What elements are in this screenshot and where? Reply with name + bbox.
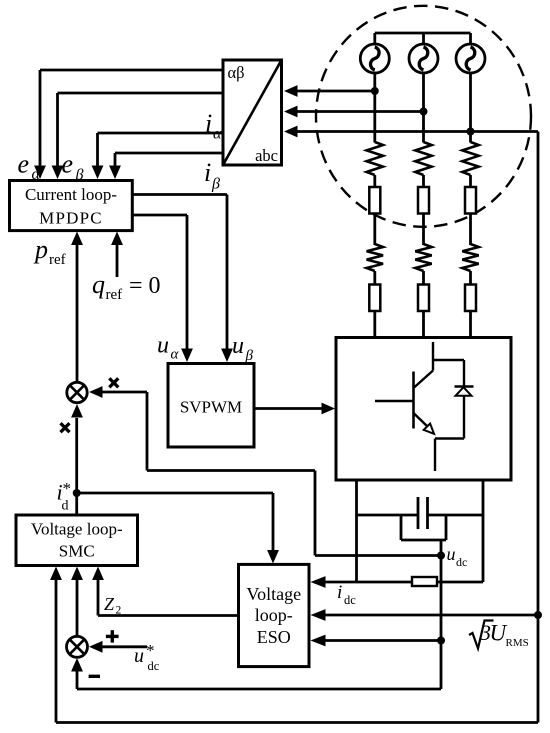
- svg-text:u: u: [232, 333, 244, 359]
- wire e_beta from transform to MPDPC: [58, 92, 224, 95]
- wire u_dc measured to comparator minus: [71, 658, 441, 689]
- label multiply sign (lower): [61, 423, 70, 432]
- svg-text:dc: dc: [148, 659, 160, 673]
- wire right rail: [537, 132, 540, 723]
- resistor Rb1: [415, 142, 431, 175]
- svg-text:abc: abc: [255, 146, 278, 165]
- block SVPWM: [168, 364, 254, 448]
- resistor Rc2: [462, 244, 478, 271]
- svg-text:α: α: [171, 347, 180, 363]
- svg-text:SVPWM: SVPWM: [180, 398, 242, 417]
- svg-text:MPDPC: MPDPC: [39, 209, 103, 228]
- wire source stub 1: [373, 33, 376, 45]
- wire u_dc feedback to multiplier: [89, 386, 441, 555]
- label q_ref = 0: [92, 270, 161, 303]
- node phase b tap: [420, 108, 428, 116]
- wire source stub 3: [469, 33, 472, 45]
- wire: [422, 214, 425, 246]
- label u_dc: [447, 544, 468, 569]
- grid boundary (dashed circle): [316, 6, 531, 227]
- IGBT Q1: [375, 342, 464, 471]
- resistor Rc1: [462, 142, 478, 175]
- svg-text:Voltage loop-: Voltage loop-: [31, 520, 123, 539]
- summing node (u_dc comparator): [67, 636, 88, 657]
- wire: [469, 175, 472, 188]
- wire bottom rail riser to SMC: [55, 578, 58, 723]
- wire MPDPC to SVPWM (u_beta): [132, 193, 227, 196]
- svg-text:β: β: [211, 176, 220, 193]
- svg-text:2: 2: [116, 605, 122, 617]
- wire phase c into converter: [469, 311, 472, 338]
- label u_beta: [232, 333, 254, 364]
- svg-text:*: *: [63, 479, 72, 498]
- wire DC bus right: [428, 514, 484, 517]
- wire: [373, 175, 376, 188]
- svg-text:Z: Z: [104, 594, 115, 614]
- svg-text:loop-: loop-: [255, 605, 293, 625]
- svg-text:SMC: SMC: [59, 542, 95, 561]
- wire Z2 from ESO to SMC: [92, 567, 238, 616]
- wire phase b into converter: [422, 311, 425, 338]
- block Voltage loop-SMC: [16, 515, 138, 566]
- wire comparator output to SMC: [76, 578, 79, 636]
- wire: [469, 214, 472, 246]
- label u_alpha: [157, 333, 180, 363]
- wire u_dc to ESO input: [320, 639, 441, 642]
- block Current loop-MPDPC: [10, 181, 133, 231]
- svg-text:αβ: αβ: [228, 63, 245, 82]
- multiplier node: [67, 382, 87, 402]
- wire u_dc* reference input: [102, 645, 147, 648]
- inductor La1: [369, 187, 380, 214]
- svg-text:ESO: ESO: [257, 627, 291, 647]
- label plus sign: [106, 630, 119, 642]
- svg-text:RMS: RMS: [506, 637, 529, 649]
- svg-text:ref: ref: [106, 287, 123, 303]
- svg-text:q: q: [92, 270, 105, 299]
- svg-text:e: e: [18, 150, 30, 179]
- svg-text:dc: dc: [344, 593, 356, 607]
- wire bottom rail: [56, 721, 538, 724]
- label e_alpha: [18, 150, 41, 184]
- wire MPDPC to SVPWM (u_alpha): [132, 214, 187, 217]
- AC source Vc: [456, 44, 485, 73]
- svg-text:ref: ref: [49, 252, 66, 268]
- node right rail to ESO: [534, 611, 542, 619]
- wire e_c tap to abc block: [296, 130, 471, 133]
- wire: [422, 271, 425, 286]
- label i_dc: [337, 582, 356, 607]
- AC source Va: [360, 44, 389, 73]
- label u_dc* reference: [134, 641, 160, 673]
- resistor Ra1: [367, 142, 383, 175]
- resistor Ra2: [367, 244, 383, 271]
- inductor La2: [369, 285, 380, 312]
- label e_beta: [62, 150, 84, 184]
- svg-text:i: i: [337, 582, 342, 603]
- wire i_beta from transform to MPDPC: [115, 152, 223, 155]
- label i_alpha: [205, 109, 222, 143]
- svg-text:e: e: [62, 150, 74, 179]
- wire e_alpha from transform to MPDPC: [40, 69, 223, 72]
- label i_beta: [204, 158, 220, 193]
- label Z_2: [104, 594, 122, 617]
- wire: [469, 271, 472, 286]
- svg-text:u: u: [157, 333, 169, 359]
- node phase a tap: [371, 87, 379, 95]
- node u_dc to ESO tap: [437, 637, 445, 645]
- wire converter DC- down: [482, 480, 485, 582]
- converter block (IGBT bridge): [336, 338, 511, 481]
- voltage sense bracket across capacitor: [401, 516, 446, 540]
- wire phase c source to impedance: [469, 73, 472, 143]
- wire u_dc vertical down: [440, 556, 443, 690]
- svg-text:i: i: [204, 158, 211, 187]
- resistor Rb2: [415, 244, 431, 271]
- label p_ref: [33, 235, 66, 268]
- node i_d*: [73, 489, 81, 497]
- inductor Lb1: [418, 187, 429, 214]
- AC source Vb: [409, 44, 438, 73]
- wire e_b tap to abc block: [296, 110, 424, 113]
- wire converter DC+ down: [355, 480, 358, 582]
- wire phase c tap to right rail: [471, 130, 539, 133]
- wire i_alpha from transform to MPDPC: [98, 132, 224, 135]
- svg-text:Current loop-: Current loop-: [25, 185, 117, 204]
- wire q_ref input to MPDPC: [116, 245, 119, 277]
- wire DC bus left: [357, 514, 419, 517]
- svg-text:p: p: [33, 235, 48, 264]
- inductor Lc2: [465, 285, 476, 312]
- abc to alpha-beta transform block U1: [223, 60, 282, 165]
- label minus sign: [89, 675, 100, 678]
- wire i_d* to ESO: [77, 493, 279, 564]
- diode D1 (freewheeling): [455, 360, 474, 439]
- wire sqrt3 U_RMS from right rail to ESO: [321, 614, 538, 617]
- wire phase a into converter: [373, 311, 376, 338]
- wire SVPWM to converter: [254, 407, 323, 410]
- svg-text:*: *: [146, 641, 155, 660]
- svg-text:i: i: [205, 109, 212, 138]
- svg-text:d: d: [62, 499, 69, 514]
- block Voltage loop-ESO: [239, 564, 310, 666]
- svg-text:α: α: [213, 126, 222, 143]
- node phase c tap: [467, 128, 475, 136]
- svg-text:u: u: [447, 544, 456, 564]
- inductor Lc1: [465, 187, 476, 214]
- label i_d*: [57, 479, 72, 514]
- node u_dc: [437, 552, 445, 560]
- wire phase b source to impedance: [422, 73, 425, 143]
- wire: [373, 214, 376, 246]
- label sqrt3 U_RMS: [469, 620, 529, 649]
- wire multiplier output p_ref to MPDPC: [76, 245, 79, 382]
- inductor Lb2: [418, 285, 429, 312]
- svg-text:β: β: [245, 348, 254, 364]
- label multiply sign (right): [109, 378, 118, 387]
- wire bracket to u_dc node: [440, 540, 443, 556]
- svg-text:Voltage: Voltage: [246, 584, 301, 604]
- svg-text:= 0: = 0: [129, 273, 161, 299]
- svg-text:u: u: [134, 645, 144, 667]
- wire SMC output i_d* to multiplier: [75, 418, 78, 515]
- wire top bus: [375, 32, 471, 35]
- capacitor C (DC link): [418, 497, 428, 529]
- wire e_a tap to abc block: [296, 90, 375, 93]
- svg-text:dc: dc: [456, 555, 467, 569]
- wire: [422, 175, 425, 188]
- wire source stub 2: [422, 33, 425, 45]
- wire: [373, 271, 376, 286]
- shunt resistor (i_dc sense) and wire to ESO: [311, 576, 484, 588]
- wire phase a source to impedance: [373, 73, 376, 143]
